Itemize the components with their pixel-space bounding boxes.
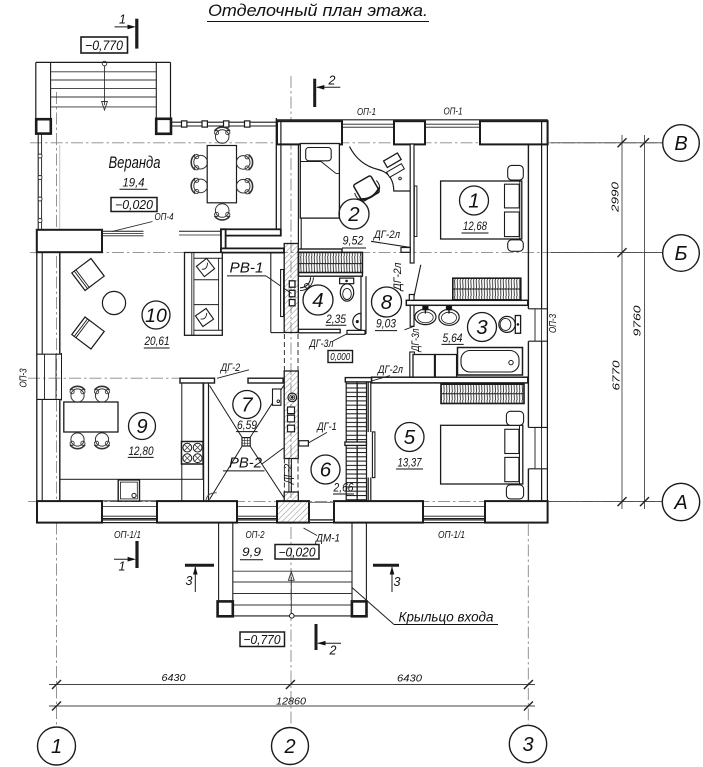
kitchen axis (horizontal y=378) bbox=[28, 377, 182, 379]
svg-text:ДГ-2л: ДГ-2л bbox=[376, 364, 403, 376]
kitchen sink bbox=[118, 480, 139, 501]
bath 4 north wall bbox=[299, 273, 363, 277]
window ОП-2 bbox=[237, 507, 277, 519]
door ДГ-2л room2 leaf bbox=[371, 241, 411, 247]
label 19,4 bbox=[120, 176, 148, 190]
armchair 1 bbox=[72, 258, 104, 290]
room circle 5 bbox=[395, 423, 424, 452]
corner sink (bath 4) bbox=[300, 277, 313, 290]
kitchen east wall bbox=[204, 383, 209, 501]
door leaf against partition bbox=[414, 186, 417, 237]
door leaf at shaft (living side) bbox=[281, 270, 284, 317]
svg-text:2990: 2990 bbox=[610, 182, 622, 213]
window ОП-3 east bbox=[528, 309, 547, 341]
svg-text:Отделочный план этажа.: Отделочный план этажа. bbox=[208, 1, 428, 20]
label Веранда bbox=[109, 154, 161, 172]
grid axis 2 (vertical x=291) bbox=[290, 76, 292, 726]
svg-text:12,80: 12,80 bbox=[129, 446, 155, 458]
desk room2 bbox=[350, 147, 411, 192]
label РВ-2 with leader bbox=[223, 448, 284, 472]
label ДМ-1 with leader bbox=[304, 528, 341, 545]
label ОП-3 west bbox=[18, 368, 30, 387]
section mark 2 top bbox=[315, 74, 341, 108]
washbasin 1 (bath 3) bbox=[415, 306, 436, 324]
staircase bbox=[345, 378, 372, 500]
east exterior wall bbox=[528, 120, 547, 523]
label ОП-4 with leader bbox=[112, 211, 174, 232]
svg-text:5: 5 bbox=[404, 426, 416, 449]
svg-text:Б: Б bbox=[674, 243, 687, 265]
wall block veranda-living west bbox=[37, 230, 102, 252]
svg-text:9: 9 bbox=[136, 416, 147, 438]
window ОП-1 (right) bbox=[425, 124, 480, 127]
svg-text:9,52: 9,52 bbox=[343, 235, 365, 247]
house west wall upper bbox=[276, 118, 281, 232]
svg-text:2: 2 bbox=[329, 644, 337, 658]
svg-text:ДГ-3л: ДГ-3л bbox=[410, 329, 422, 354]
veranda west rail bbox=[38, 134, 60, 230]
window ОП-4b bbox=[179, 231, 221, 235]
label 9,9 bbox=[240, 545, 263, 560]
porch axis circle bbox=[290, 614, 295, 619]
svg-text:ОП-1/1: ОП-1/1 bbox=[114, 529, 141, 541]
toilet (bath 3) bbox=[499, 316, 521, 334]
svg-text:9,9: 9,9 bbox=[242, 545, 261, 559]
wall above room 5 bbox=[372, 377, 528, 383]
sofa bbox=[185, 253, 223, 336]
bath 4 south wall bbox=[299, 329, 366, 334]
label 9,03 bbox=[375, 319, 397, 331]
stair east wall bbox=[368, 382, 371, 501]
svg-text:2,66: 2,66 bbox=[333, 482, 354, 494]
room circle 1 bbox=[460, 186, 489, 215]
computer monitor bbox=[384, 153, 402, 167]
hall door jamb stub bbox=[299, 441, 309, 446]
veranda entry stairs bbox=[36, 62, 171, 119]
elevation box -0,020 (veranda) bbox=[111, 198, 157, 212]
svg-text:ДГ-2: ДГ-2 bbox=[282, 464, 294, 486]
grid axis 3 (vertical x=528.5) bbox=[527, 524, 529, 724]
svg-text:9,03: 9,03 bbox=[376, 319, 397, 331]
svg-text:13,37: 13,37 bbox=[398, 457, 423, 469]
grid axis 1 (vertical x=56) bbox=[56, 92, 58, 726]
shaft vent square 5 bbox=[288, 415, 295, 422]
svg-text:12,68: 12,68 bbox=[463, 221, 488, 233]
svg-text:4: 4 bbox=[312, 289, 323, 312]
veranda chair left-2 bbox=[191, 178, 207, 193]
label 5,64 bbox=[442, 333, 464, 345]
north exterior wall with piers bbox=[276, 120, 548, 145]
nightstand room1 top bbox=[508, 165, 524, 180]
door ДГ-3л bath3 leaf bbox=[405, 326, 415, 377]
section mark 1 bottom bbox=[114, 541, 137, 574]
stair post NW bbox=[36, 119, 51, 133]
veranda chair top bbox=[215, 127, 230, 143]
south exterior wall with piers bbox=[37, 501, 548, 522]
svg-text:−0,020: −0,020 bbox=[279, 545, 316, 559]
dining chair 3 bbox=[70, 433, 85, 449]
dim text 12860 bbox=[276, 696, 306, 708]
nightstand room1 bottom bbox=[508, 240, 524, 252]
elevation box -0,020 (entry) bbox=[275, 545, 319, 560]
washbasin 2 (bath 3) bbox=[439, 306, 459, 325]
dining chair 2 bbox=[95, 386, 110, 402]
dim text 9760 bbox=[632, 305, 644, 336]
svg-text:9760: 9760 bbox=[632, 305, 644, 336]
svg-text:5,64: 5,64 bbox=[443, 333, 463, 345]
dim text 6770 bbox=[611, 360, 623, 390]
grid circle В bbox=[663, 125, 700, 162]
title: Отделочный план этажа bbox=[207, 1, 429, 22]
washing machine 2 bbox=[435, 355, 456, 378]
right dimension lines bbox=[549, 135, 663, 509]
dining table bbox=[64, 402, 118, 432]
shaft vent square 2 bbox=[289, 290, 295, 297]
sofa pillow 1 bbox=[196, 258, 214, 276]
svg-text:0,000: 0,000 bbox=[330, 351, 350, 363]
door ДГ-3л bath3 rotated label bbox=[410, 329, 422, 354]
window ОП-4a bbox=[102, 231, 144, 236]
section mark 3 right bbox=[373, 565, 401, 592]
grid circle 2 bbox=[272, 728, 309, 765]
label ОП-1/1 left bbox=[114, 529, 141, 541]
door ДГ-1 leaf bbox=[372, 432, 375, 478]
svg-text:ДГ-2: ДГ-2 bbox=[219, 362, 240, 374]
label ДГ-3л with leader bbox=[308, 334, 347, 350]
dining chair 4 bbox=[95, 433, 110, 449]
svg-text:2: 2 bbox=[328, 74, 336, 88]
room circle 2 bbox=[339, 199, 369, 229]
coffee table bbox=[102, 291, 125, 314]
stair post NE bbox=[156, 119, 171, 134]
office chair bbox=[351, 174, 383, 203]
svg-text:10: 10 bbox=[145, 305, 167, 327]
door ДГ-2 leaf bbox=[289, 459, 292, 492]
svg-text:3: 3 bbox=[186, 574, 193, 588]
grid axis Б (horizontal y=252.5) bbox=[30, 252, 662, 254]
label ДГ-2л room2 bbox=[372, 229, 400, 241]
label ОП-2 bbox=[246, 529, 265, 541]
bedroom 2 west wall bbox=[298, 144, 301, 249]
kitchen counter south bbox=[60, 479, 182, 501]
svg-text:ДГ-3л: ДГ-3л bbox=[308, 338, 334, 350]
grid circle 1 bbox=[38, 727, 76, 765]
label 12,80 bbox=[128, 446, 154, 458]
svg-text:2: 2 bbox=[347, 203, 360, 226]
svg-text:1: 1 bbox=[51, 736, 62, 758]
svg-text:6770: 6770 bbox=[611, 360, 623, 390]
svg-text:1: 1 bbox=[119, 13, 126, 27]
wardrobe hall (striped) bbox=[299, 252, 363, 272]
svg-text:1: 1 bbox=[468, 190, 479, 213]
svg-text:3: 3 bbox=[394, 575, 401, 589]
partition rooms 2/1 bbox=[401, 144, 414, 263]
wardrobe room5 (striped) bbox=[441, 384, 524, 403]
dim text 6430 left bbox=[162, 672, 186, 684]
label ДГ-2л room5 with leader bbox=[372, 364, 404, 381]
room circle 8 bbox=[372, 287, 402, 317]
porch post right bbox=[352, 601, 367, 616]
shaft vent square 1 bbox=[289, 281, 295, 287]
west exterior wall bbox=[37, 252, 60, 523]
room circle 3 bbox=[468, 313, 497, 342]
svg-text:−0,770: −0,770 bbox=[244, 632, 282, 647]
bed room1 bbox=[441, 181, 522, 239]
svg-text:Веранда: Веранда bbox=[109, 154, 161, 172]
label 2,66 bbox=[333, 482, 354, 494]
window east (room 5) bbox=[528, 427, 547, 468]
label ДГ-2 kitchen with leader bbox=[217, 362, 249, 378]
bath 3 north wall bbox=[406, 295, 528, 306]
bath 3 west wall bbox=[410, 305, 414, 326]
svg-text:2: 2 bbox=[283, 736, 295, 758]
svg-text:ОП-1/1: ОП-1/1 bbox=[438, 529, 465, 541]
label ОП-1 left bbox=[357, 106, 376, 118]
svg-text:РВ-2: РВ-2 bbox=[229, 456, 262, 472]
svg-text:РВ-1: РВ-1 bbox=[230, 261, 264, 277]
svg-text:В: В bbox=[674, 133, 687, 155]
elevation box 0,000 bbox=[328, 351, 353, 364]
label 20,61 bbox=[144, 336, 170, 348]
svg-text:ДМ-1: ДМ-1 bbox=[314, 533, 340, 545]
room circle 10 bbox=[142, 301, 170, 329]
svg-text:12860: 12860 bbox=[276, 696, 306, 708]
elevation box -0,770 (top) bbox=[81, 37, 128, 53]
svg-text:6,59: 6,59 bbox=[237, 420, 258, 432]
nightstand room5 bottom bbox=[506, 485, 523, 499]
svg-text:6: 6 bbox=[320, 459, 332, 482]
window ОП-1/1 left bbox=[102, 507, 157, 519]
svg-text:ОП-1: ОП-1 bbox=[444, 106, 463, 118]
label 13,37 bbox=[396, 457, 423, 469]
label РВ-1 with leader bbox=[227, 261, 292, 294]
grid axis А (horizontal y=501.5) bbox=[28, 501, 662, 503]
window ОП-1/1 right bbox=[423, 507, 485, 519]
label ОП-1/1 right bbox=[438, 529, 465, 541]
room circle 9 bbox=[129, 413, 156, 440]
label Крыльцо входа bbox=[352, 588, 498, 625]
label 9,52 bbox=[342, 235, 366, 248]
window ОП-1 (left) bbox=[342, 124, 394, 127]
shaft vent circle bbox=[288, 393, 297, 402]
veranda chair left-1 bbox=[191, 155, 207, 170]
svg-text:1: 1 bbox=[119, 560, 126, 574]
grid axis В (horizontal y=143) bbox=[30, 142, 662, 144]
svg-text:3: 3 bbox=[476, 316, 488, 339]
bath 4 east wall bbox=[361, 276, 366, 334]
veranda chair right-2 bbox=[236, 179, 252, 194]
elevation box -0,770 (porch) bbox=[240, 632, 285, 647]
wall basin (bath 4) bbox=[353, 313, 361, 329]
shaft vent square 6 bbox=[288, 425, 295, 432]
toilet (bath 4) bbox=[340, 278, 354, 301]
label ОП-1 right bbox=[444, 106, 463, 118]
svg-text:3: 3 bbox=[522, 734, 533, 756]
porch post left bbox=[218, 601, 233, 616]
veranda dining table bbox=[207, 146, 236, 203]
svg-text:А: А bbox=[673, 492, 687, 514]
shaft vent square 4 bbox=[288, 407, 295, 414]
entry porch steps bbox=[219, 523, 367, 616]
svg-text:ОП-3: ОП-3 bbox=[547, 314, 559, 333]
label ОП-3 east bbox=[547, 314, 559, 333]
window ОП-3 west bbox=[37, 353, 62, 401]
room7 north wall bbox=[248, 378, 283, 383]
room circle 6 bbox=[311, 455, 340, 484]
svg-text:Крыльцо входа: Крыльцо входа bbox=[399, 609, 494, 625]
bottom dimension lines bbox=[49, 680, 535, 711]
wall block veranda-living east bbox=[221, 229, 284, 252]
dining chair 1 bbox=[70, 386, 85, 402]
label 12,68 bbox=[462, 221, 489, 233]
armchair 2 bbox=[72, 317, 104, 349]
svg-text:−0,770: −0,770 bbox=[85, 38, 123, 53]
svg-text:ДГ-2л: ДГ-2л bbox=[372, 229, 400, 241]
section mark 1 top bbox=[115, 13, 137, 49]
section mark 3 left bbox=[185, 565, 214, 592]
svg-text:6430: 6430 bbox=[397, 673, 422, 685]
veranda chair bottom bbox=[215, 204, 230, 220]
svg-text:−0,020: −0,020 bbox=[115, 198, 153, 212]
sofa pillow 2 bbox=[195, 308, 213, 326]
svg-text:8: 8 bbox=[381, 291, 393, 314]
room7 chute diagonals bbox=[210, 386, 284, 500]
section mark 2 bottom bbox=[316, 624, 341, 658]
bed room5 bbox=[441, 425, 523, 484]
hall boundary line bbox=[271, 253, 284, 333]
kitchen counter strip bbox=[182, 383, 203, 479]
wardrobe room8 (striped) bbox=[453, 278, 521, 300]
grid circle Б bbox=[663, 235, 700, 272]
door ДГ-2л room1 rotated label bbox=[392, 263, 404, 293]
svg-text:2,35: 2,35 bbox=[325, 314, 346, 326]
bed room2 bbox=[300, 144, 339, 219]
room7 chute box bbox=[242, 438, 250, 446]
kitchen-living wall bbox=[180, 378, 215, 383]
stairs descent arrow bbox=[102, 61, 108, 110]
label 2,35 bbox=[325, 314, 346, 326]
kitchen door arc bbox=[206, 493, 217, 501]
room circle 4 bbox=[303, 285, 333, 315]
porch ascent arrow bbox=[288, 572, 294, 613]
ventilation shaft column bbox=[284, 244, 298, 502]
svg-text:6430: 6430 bbox=[162, 672, 186, 684]
nightstand room5 top bbox=[506, 411, 523, 425]
label ДГ-1 with leader bbox=[309, 421, 337, 443]
door ДГ-2 rotated label bbox=[282, 464, 294, 486]
svg-text:ОП-1: ОП-1 bbox=[357, 106, 376, 118]
svg-text:ОП-4: ОП-4 bbox=[155, 211, 174, 223]
washing machine 1 bbox=[413, 355, 435, 378]
electrical panel bbox=[273, 389, 281, 405]
room 2 south wall bbox=[298, 249, 342, 252]
bathtub bbox=[458, 348, 523, 376]
svg-text:ОП-2: ОП-2 bbox=[246, 529, 265, 541]
svg-text:19,4: 19,4 bbox=[123, 176, 145, 190]
grid circle 3 bbox=[509, 725, 546, 762]
veranda chair right-1 bbox=[236, 155, 252, 170]
svg-text:ДГ-1: ДГ-1 bbox=[316, 421, 337, 433]
computer keyboard bbox=[387, 164, 405, 180]
kitchen stove bbox=[182, 442, 204, 465]
veranda top rail with posts bbox=[171, 121, 276, 127]
door room1 leaf bbox=[414, 265, 421, 298]
room circle 7 bbox=[233, 391, 261, 419]
svg-text:20,61: 20,61 bbox=[144, 336, 170, 348]
svg-text:ОП-3: ОП-3 bbox=[18, 368, 30, 387]
label 6,59 bbox=[236, 420, 258, 432]
shaft vent square 3 bbox=[289, 300, 295, 306]
entrance door ДМ-1 opening bbox=[309, 502, 334, 520]
dim text 2990 bbox=[610, 182, 622, 213]
svg-text:ДГ-2л: ДГ-2л bbox=[392, 263, 404, 293]
dim text 6430 right bbox=[397, 673, 422, 685]
grid circle А bbox=[662, 483, 699, 520]
svg-text:7: 7 bbox=[241, 394, 254, 417]
